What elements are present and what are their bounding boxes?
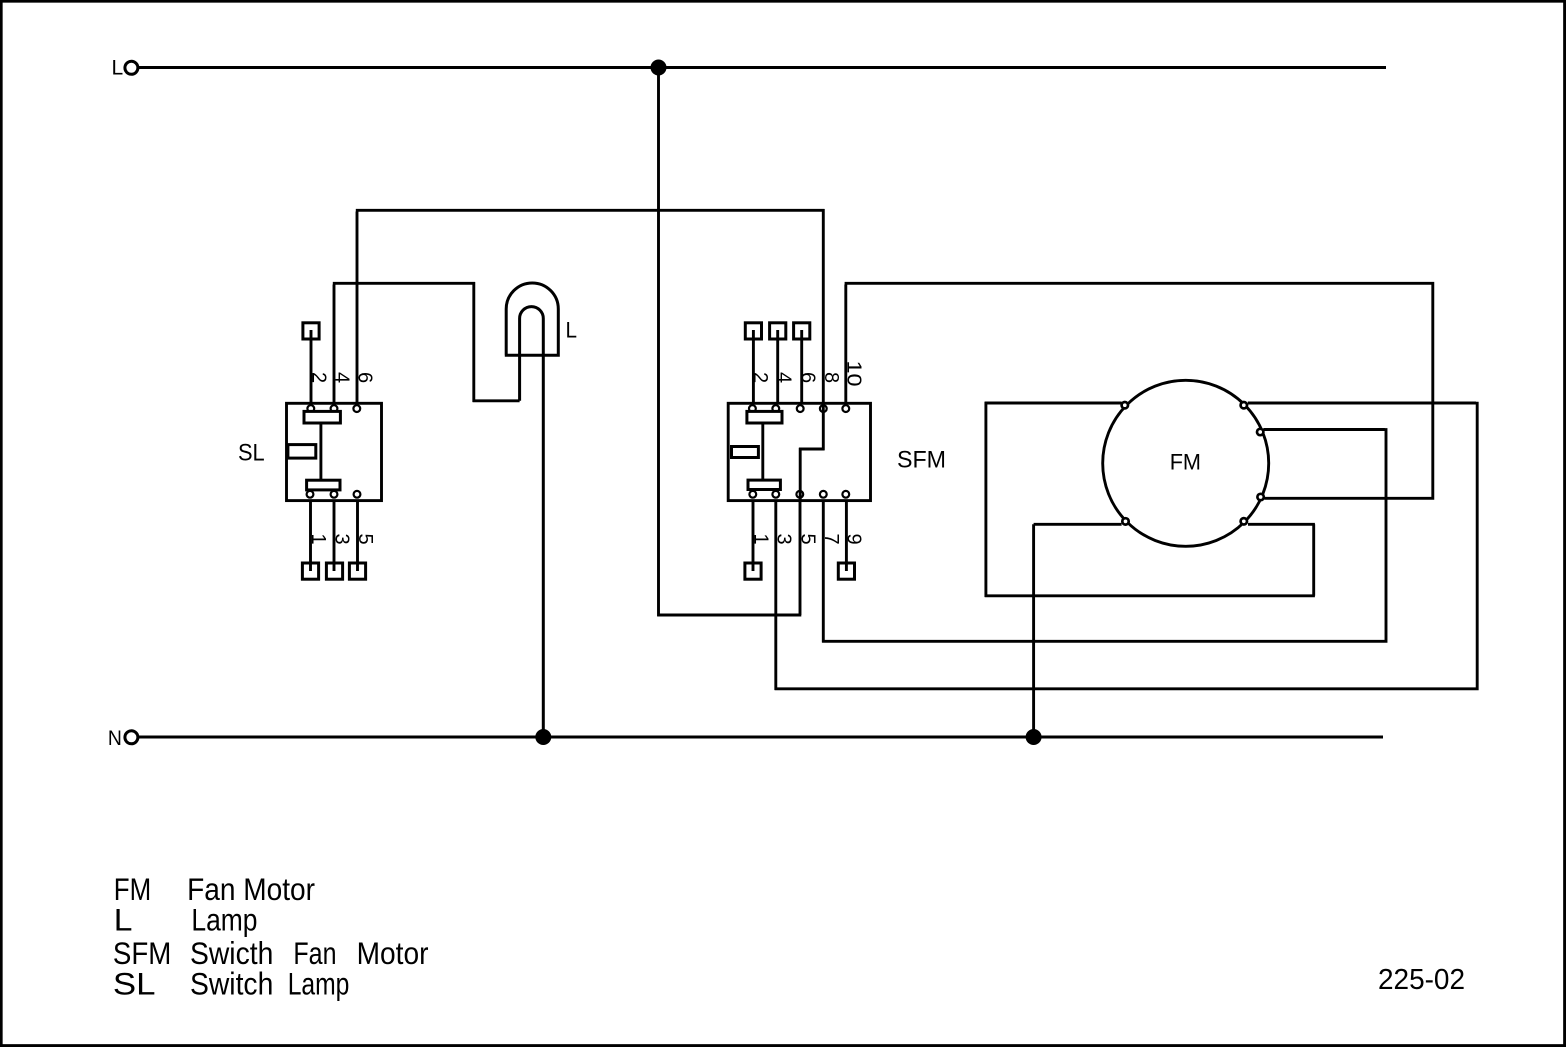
wire SL pin 1 to bottom terminal [309,500,312,571]
svg-text:8: 8 [820,372,842,383]
svg-text:SFM: SFM [897,447,946,474]
svg-text:L: L [114,902,133,938]
SL top contact bar [304,411,340,423]
svg-text:3: 3 [331,534,353,545]
FM terminal bottom-right [1241,518,1247,524]
SL central link [319,423,322,480]
svg-text:Switch: Switch [190,966,273,1002]
wire from LO junction down, left at y=615, up to SFM pin 5 [657,68,801,617]
SFM pin 8 circle [820,405,827,412]
SL pin 4 circle [331,405,338,412]
wire FM bottom terminals horizontal [1034,523,1315,526]
SFM bottom terminal square 9 [838,563,854,579]
node N terminal circle [125,731,138,744]
wire SL pin6 to SFM pin8 over top [356,209,825,403]
svg-text:225-02: 225-02 [1378,964,1465,996]
svg-text:N: N [108,726,122,750]
SFM internal wire pin8 to pin5 [799,403,825,500]
svg-text:5: 5 [354,534,376,545]
SL bottom terminal square 5 [349,563,365,579]
svg-text:6: 6 [353,372,375,383]
wire LO line [138,66,1386,69]
lamp L outer bulb [505,283,559,355]
SL top terminal square [303,323,319,339]
svg-text:9: 9 [842,534,864,545]
wire FM upper-left terminal to left loop [985,402,1315,597]
svg-text:FM: FM [1170,450,1201,475]
svg-text:1: 1 [750,534,772,545]
junction on LO line [651,60,667,76]
SFM pin 2 circle [749,405,756,412]
svg-text:Lamp: Lamp [191,902,257,938]
svg-text:2: 2 [749,372,771,383]
junction on NO line at x=1033 [1026,729,1042,745]
wire SFM pin 9 to bottom terminal [845,500,848,571]
wire SL pin 3 to bottom terminal [333,500,336,571]
svg-text:4: 4 [331,372,353,383]
switch SL box [287,403,382,500]
svg-text:L: L [566,317,578,342]
SL bottom terminal square 1 [302,563,318,579]
SFM pin 10 circle [842,405,849,412]
SL actuator rect [288,445,316,459]
SFM bottom contact bar [748,480,780,489]
switch SFM box [728,403,870,500]
svg-text:SL: SL [113,966,156,1002]
FM terminal upper-right [1241,402,1247,408]
wire SL terminal to pin 2 [310,330,313,403]
SFM pin 9 circle [842,491,849,498]
SL pin 5 circle [354,491,361,498]
FM terminal bottom-left [1122,518,1128,524]
wire NO line [138,736,1383,739]
wire SFM terminal to pin 4 [776,330,779,403]
SL pin 1 circle [307,491,314,498]
SFM pin 7 circle [820,491,827,498]
lamp L inner filament loop with leads [520,307,544,737]
FM terminal upper-left [1122,402,1128,408]
SFM top terminal square pin4 [770,323,786,339]
SFM pin 3 circle [772,491,779,498]
svg-text:1: 1 [307,534,329,545]
SL pin 3 circle [331,491,338,498]
SFM bottom terminal square 1 [745,563,761,579]
wire SL pin 5 to bottom terminal [356,500,359,571]
SFM pin 4 circle [772,405,779,412]
wire from bottom horizontal down to NO junction [1032,524,1035,737]
SFM top terminal square pin6 [794,323,810,339]
svg-text:SL: SL [238,441,265,467]
SFM central link [761,423,764,480]
SFM pin 5 circle [796,491,803,498]
svg-text:2: 2 [308,372,330,383]
node L terminal circle [125,61,138,74]
FM terminal right-lower [1257,494,1263,500]
wire SFM pin7 to FM right-upper terminal [822,428,1386,642]
wire SL pin4 to lamp left lead [333,282,520,403]
SFM actuator rect [732,447,759,458]
wire SFM terminal to pin 6 [800,330,803,403]
svg-text:L: L [112,56,124,80]
SFM top terminal square pin2 [745,323,761,339]
SFM pin 1 circle [749,491,756,498]
wire SFM pin10 to FM right-lower terminal [845,283,1433,499]
wire SFM terminal to pin 2 [752,330,755,403]
FM terminal right-upper [1257,429,1263,435]
svg-text:6: 6 [797,372,819,383]
svg-text:Motor: Motor [357,935,429,971]
SFM pin 6 circle [797,405,804,412]
svg-text:Lamp: Lamp [288,966,350,1002]
SL pin 6 circle [353,405,360,412]
SL bottom contact bar [307,480,340,490]
motor FM circle [1103,380,1269,546]
SL bottom terminal square 3 [326,563,342,579]
SL pin 2 circle [307,405,314,412]
svg-text:4: 4 [772,372,794,383]
SFM top contact bar [747,411,782,423]
wire SFM pin3 to FM upper-right terminal [775,402,1478,690]
junction on NO line at lamp lead [535,729,551,745]
svg-text:5: 5 [796,534,818,545]
wire SFM pin 1 to bottom terminal [752,500,755,571]
